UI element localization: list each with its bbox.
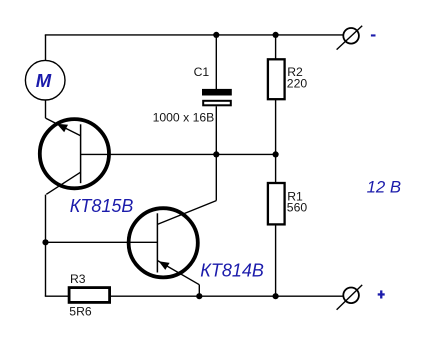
junction top rail R2 (273, 32, 279, 38)
wire bottom rail left (45, 295, 69, 297)
svg-text:1000 x 16В: 1000 x 16В (153, 111, 215, 125)
terminal plus circle (343, 288, 359, 304)
resistor R1 (268, 183, 285, 224)
wire C1 top (215, 35, 217, 89)
wire Q2 emitter vertical (198, 285, 200, 297)
wire Q1 base to divider node (81, 153, 276, 155)
resistor R3 (69, 288, 110, 303)
svg-text:КТ815В: КТ815В (70, 196, 134, 216)
transistor Q1 KT815V circle (40, 119, 109, 188)
svg-text:R3: R3 (70, 272, 86, 286)
label minus (371, 34, 376, 36)
motor M (25, 60, 65, 100)
junction node C1 base (213, 151, 219, 157)
label plus (378, 290, 385, 298)
terminal minus slash (337, 26, 363, 50)
transistor Q1 base bar (80, 124, 82, 183)
wire R2 bottom (275, 99, 277, 154)
wire bottom rail (111, 295, 343, 297)
junction Q1 collector Q2 base (42, 239, 48, 245)
junction Q2 emitter rail (196, 293, 202, 299)
capacitor C1 plate bottom (203, 101, 231, 106)
transistor Q1 emitter arrow (57, 124, 68, 133)
wire Q1 collector down (45, 195, 47, 297)
wire R2 top (275, 35, 277, 59)
resistor R2 (268, 59, 285, 99)
svg-text:C1: C1 (194, 65, 210, 79)
wire R1 bottom (275, 224, 277, 296)
transistor Q2 emitter arrow (159, 261, 170, 270)
wire Q2 collector vertical (215, 154, 217, 200)
terminal plus slash (337, 285, 363, 310)
svg-text:5R6: 5R6 (69, 304, 92, 318)
transistor Q1 collector wire (46, 172, 80, 194)
svg-text:12 В: 12 В (367, 178, 402, 197)
svg-text:220: 220 (287, 76, 308, 90)
wire motor bottom (45, 100, 47, 118)
transistor Q1 emitter wire (46, 118, 81, 136)
transistor Q2 emitter wire (157, 261, 199, 285)
capacitor C1 plate top (202, 89, 232, 96)
transistor Q2 KT814V circle (129, 208, 198, 277)
junction R1 rail (273, 293, 279, 299)
svg-text:M: M (36, 70, 52, 91)
wire Q2 collector diagonal (157, 201, 216, 225)
wire C1 bottom (215, 106, 217, 154)
wire Q2 base (46, 241, 158, 243)
svg-text:КТ814В: КТ814В (200, 260, 264, 280)
wire top rail (45, 34, 343, 36)
svg-text:560: 560 (287, 201, 308, 215)
junction node divider (273, 151, 279, 157)
wire motor top (45, 35, 47, 61)
junction top rail C1 (213, 32, 219, 38)
terminal minus circle (343, 28, 359, 44)
transistor Q2 base bar (156, 213, 158, 272)
wire R1 top (275, 154, 277, 183)
